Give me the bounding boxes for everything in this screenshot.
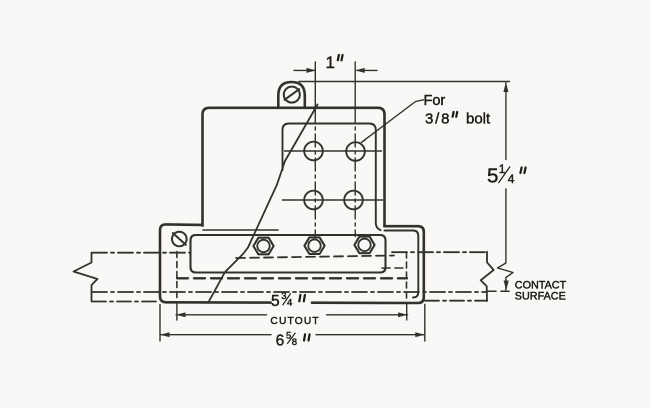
hole crosshair row 2: [283, 199, 383, 201]
contact surface extension line: [488, 290, 513, 292]
arrowhead cutout left: [176, 312, 186, 317]
svg-text:6: 6: [276, 333, 285, 350]
busbar bottom edge / contact surface line: [92, 291, 487, 293]
busbar right break: [481, 252, 494, 301]
upper block outline: [203, 108, 385, 226]
base outer outline: [160, 224, 424, 303]
arrowhead 1in right: [355, 68, 365, 73]
svg-text:4: 4: [508, 172, 515, 186]
clamp pad with nuts: [191, 235, 386, 273]
busbar left break: [74, 253, 98, 302]
svg-text:8: 8: [292, 337, 297, 348]
hole crosshair row 1: [285, 150, 382, 152]
slash 3/4 of 5-3/4: [283, 293, 291, 305]
cutout hidden right edge: [406, 252, 408, 301]
svg-text:SURFACE: SURFACE: [515, 291, 566, 303]
top extension line to 5-1/4 dimension: [299, 81, 510, 83]
cutout dimension line: [176, 314, 408, 316]
arrowhead bolt leader: [359, 137, 368, 145]
leader line for bolt note: [362, 100, 424, 143]
svg-text:CUTOUT: CUTOUT: [270, 316, 319, 327]
6-5/8 extension right: [424, 305, 426, 342]
5-1/4 dimension line: [498, 83, 514, 290]
bolt hole top-right: [346, 142, 365, 161]
arrowhead 1in left: [307, 68, 317, 73]
svg-text:For: For: [424, 93, 446, 109]
busbar top edge right (phantom line): [392, 251, 487, 253]
slash 1/4 of 5-1/4: [499, 167, 511, 184]
svg-text:1: 1: [326, 53, 335, 72]
inner plate around bolt holes: [283, 124, 381, 231]
inch tick marks: [299, 55, 525, 341]
svg-text:bolt: bolt: [466, 111, 491, 128]
busbar lower lip line left: [92, 301, 159, 303]
hex nut right: [354, 237, 374, 254]
hole centerline right column: [354, 62, 356, 110]
hidden seat line right of pad: [382, 267, 404, 269]
busbar top edge revealed (dashed across pad): [236, 256, 394, 259]
tab (ear) on top: [278, 82, 305, 108]
diagonal break-out line: [208, 105, 318, 304]
arrowhead cutout right: [398, 312, 408, 317]
cutout extension below base right: [406, 304, 408, 321]
busbar top edge left (phantom line): [92, 252, 191, 254]
hex nut middle: [304, 237, 324, 254]
cutout hidden bottom line: [177, 277, 407, 279]
svg-text:4: 4: [287, 298, 292, 309]
base inner right edge (double line): [385, 231, 419, 298]
6-5/8 extension left: [159, 305, 161, 342]
cutout hidden left edge: [176, 252, 178, 302]
svg-text:3/8: 3/8: [425, 111, 451, 128]
bolt hole mid-left: [304, 191, 323, 210]
arrowhead 5-1/4 bottom: [504, 281, 509, 291]
6-5/8 dimension line: [160, 334, 425, 336]
cutout extension below base left: [176, 304, 178, 321]
1 inch dimension line left: [294, 69, 314, 71]
hole centerline left column: [314, 62, 316, 110]
svg-text:5: 5: [271, 293, 280, 310]
bolt hole mid-right: [344, 191, 363, 210]
block front face bottom shadow line: [203, 229, 278, 231]
slash 5/8 of 6-5/8: [287, 333, 295, 344]
arrowhead 6-5/8 left: [160, 332, 170, 337]
arrowhead 6-5/8 right: [415, 332, 425, 337]
bolt hole top-left: [304, 142, 323, 161]
tab screw: [284, 87, 300, 103]
hex nut left: [253, 238, 273, 255]
busbar lower lip line right: [425, 300, 487, 302]
base screw: [172, 232, 187, 247]
svg-text:5: 5: [487, 165, 498, 188]
fraction slashes: [283, 167, 510, 344]
1 inch dimension line right: [357, 69, 377, 71]
arrowhead 5-1/4 top: [503, 82, 508, 92]
